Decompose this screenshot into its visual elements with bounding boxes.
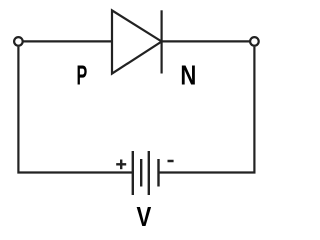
svg-text:V: V — [137, 202, 152, 227]
svg-text:N: N — [180, 60, 196, 91]
svg-text:P: P — [77, 59, 88, 91]
